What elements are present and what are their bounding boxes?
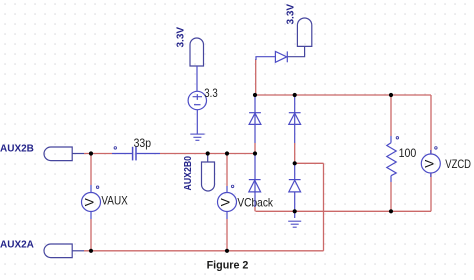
wire: top-left vertical from diode D1 anode down to top bus: [255, 59, 257, 95]
wire: bottom bus y=250.8: [84, 250, 324, 252]
wire: VCback probe bottom to bottom bus: [226, 219, 228, 251]
capacitor C1 symbol: [112, 147, 160, 161]
wire: 3.3V port to source V1: [196, 66, 198, 92]
node: junction dots on bottom bus: [89, 249, 229, 253]
diode D4 (bridge col2 upper, pointing up): [289, 96, 301, 143]
svg-text:AUX2B: AUX2B: [0, 144, 34, 155]
wire: lower rail y=211 from bridge bottom to VZCD column: [256, 210, 432, 212]
wire: bottom bus right vertical up to bridge mid node B: [323, 163, 325, 251]
node: bridge col2 mid junction: [293, 161, 297, 165]
wire: VAUX probe bottom to bottom bus: [90, 219, 92, 251]
port AUX2B0 symbol: [202, 162, 215, 191]
wire: source V1 to ground: [196, 110, 198, 134]
wire: top bus from node at x=255 to x=431: [255, 94, 431, 96]
diode D3 (bridge col1 lower, pointing up): [249, 170, 261, 207]
wire: VCback probe top tap: [226, 154, 228, 187]
voltmeter VCback: [218, 185, 237, 219]
wire: main AUX2B net horizontal y=153.5 segment cap-to-bridge: [160, 153, 255, 155]
wire: resistor column segments: [390, 95, 392, 211]
voltmeter VZCD: [421, 147, 440, 177]
svg-text:V: V: [219, 198, 233, 206]
svg-text:VCback: VCback: [237, 196, 273, 210]
wire: main AUX2B net horizontal y=153.5 segment port-to-cap: [84, 153, 112, 155]
port AUX2A symbol: [44, 244, 84, 258]
svg-text:V: V: [83, 198, 97, 206]
node: junction dots on top bus: [253, 93, 393, 97]
wire: bridge column 1 segments: [254, 143, 256, 211]
node: junction dots on lower rail y=211: [293, 209, 394, 213]
svg-text:V: V: [422, 160, 436, 168]
svg-text:AUX2B0: AUX2B0: [183, 156, 194, 191]
wire: col1 mid node to lower diode (blue stub): [254, 154, 256, 171]
svg-text:100: 100: [399, 148, 417, 160]
ground (under bridge col2): [288, 221, 301, 227]
node AUX2B0 junction stub: [207, 154, 209, 163]
port AUX2B symbol: [44, 147, 84, 161]
ground (under source V1): [190, 134, 204, 140]
resistor R1 polarity mark: [396, 137, 398, 139]
wire: right vertical from top bus down to VZCD probe top: [430, 95, 432, 154]
wire: bridge column 2 segments: [294, 143, 296, 163]
port 3.3V (right) symbol: [297, 18, 311, 46]
voltmeter VAUX: [82, 185, 101, 219]
diode D2 (bridge col1 upper, pointing up): [249, 96, 261, 143]
wire: VZCD probe bottom down to lower rail: [430, 173, 432, 211]
wire: VAUX probe top tap: [90, 154, 92, 186]
port 3.3V (left) symbol: [190, 38, 204, 66]
svg-text:3.3: 3.3: [204, 86, 218, 100]
wire: bridge mid node B to right vertical: [295, 162, 324, 164]
resistor R1 100: [387, 136, 396, 182]
svg-text:AUX2A: AUX2A: [0, 240, 34, 251]
voltage source V1 3.3: [188, 91, 206, 109]
diode D5 (bridge col2 lower, pointing up): [289, 163, 301, 218]
node: junction dots on main AUX2B net: [89, 151, 257, 155]
capacitor C1 polarity mark: [114, 147, 116, 149]
diode D1 (pointing right, to 3.3V): [256, 51, 287, 62]
svg-text:3.3V: 3.3V: [286, 4, 297, 25]
svg-text:3.3V: 3.3V: [175, 27, 186, 48]
svg-text:VZCD: VZCD: [445, 157, 471, 171]
svg-text:Figure 2: Figure 2: [207, 259, 249, 271]
wire: 3.3V right port down and left to diode D1 cathode: [288, 46, 305, 56]
svg-text:VAUX: VAUX: [101, 194, 127, 208]
